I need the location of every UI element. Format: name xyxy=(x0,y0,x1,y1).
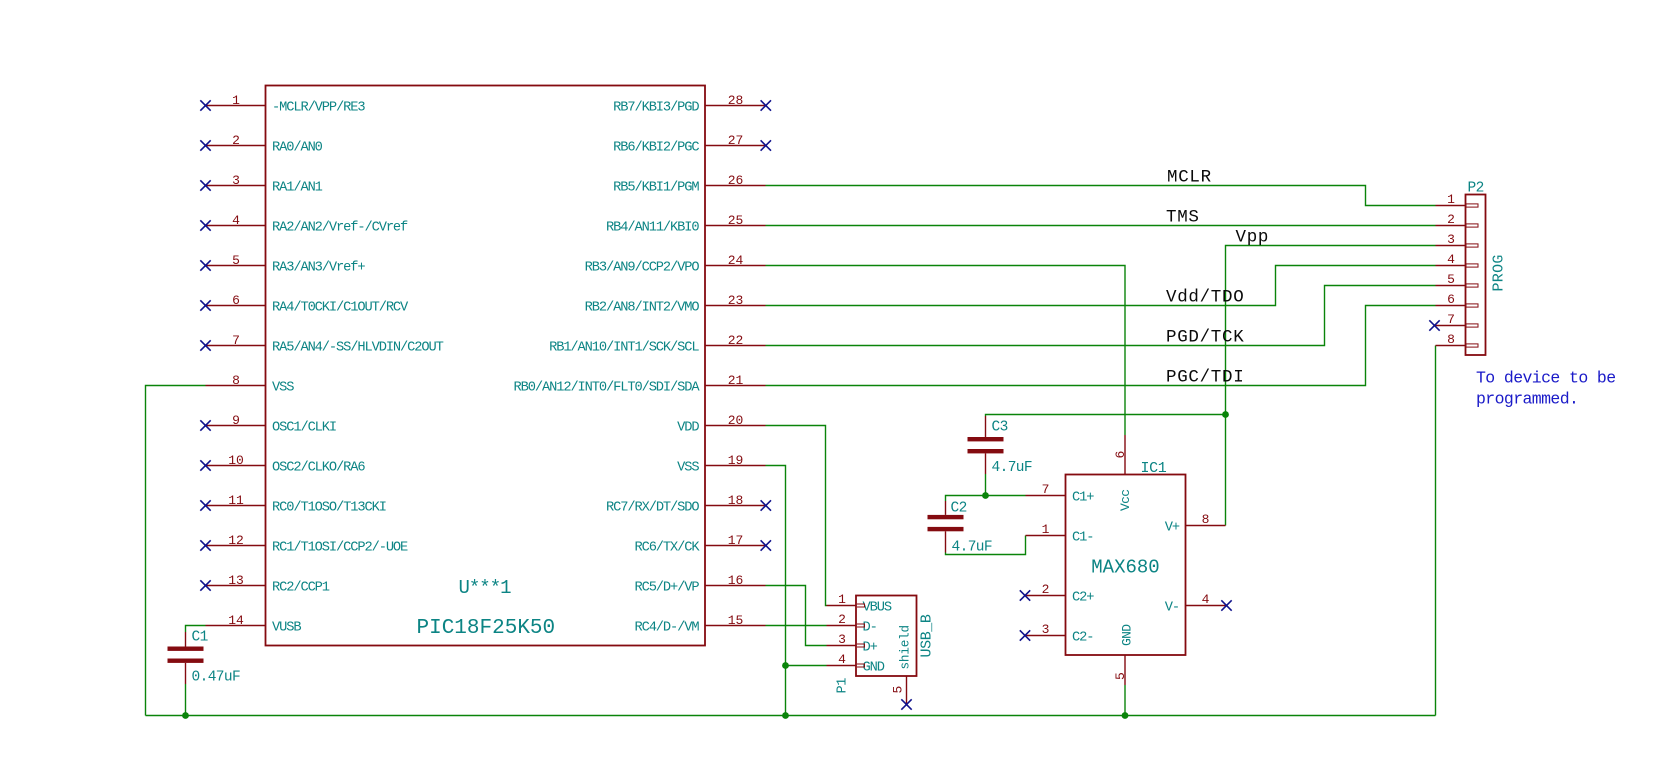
U1 pin 19 VSS xyxy=(677,453,765,476)
svg-text:6: 6 xyxy=(232,293,240,308)
svg-text:C1: C1 xyxy=(192,630,208,646)
capacitor C3 value 4.7uF xyxy=(992,460,1033,476)
svg-text:5: 5 xyxy=(891,686,906,694)
svg-text:7: 7 xyxy=(1447,312,1455,327)
P1 shield label xyxy=(899,625,913,669)
svg-text:RC6/TX/CK: RC6/TX/CK xyxy=(634,541,700,556)
svg-text:RA0/AN0: RA0/AN0 xyxy=(272,141,323,156)
svg-text:26: 26 xyxy=(728,173,744,188)
svg-text:3: 3 xyxy=(1447,232,1455,247)
junction Vpp / V+ / C3 node xyxy=(1222,411,1229,418)
svg-text:15: 15 xyxy=(728,613,744,628)
svg-text:5: 5 xyxy=(232,253,240,268)
U1 pin 6 RA4/T0CKI/C1OUT/RCV xyxy=(200,293,409,316)
svg-text:VSS: VSS xyxy=(677,461,699,476)
svg-text:OSC2/CLKO/RA6: OSC2/CLKO/RA6 xyxy=(272,461,365,476)
U1 pin 20 VDD xyxy=(677,413,765,436)
wire C3 bottom to C1+ node xyxy=(985,474,987,496)
svg-text:Vdd/TDO: Vdd/TDO xyxy=(1166,288,1244,308)
svg-text:1: 1 xyxy=(1447,192,1455,207)
wire MCLR net pin26 to P2 pin1 xyxy=(766,186,1436,206)
svg-text:PROG: PROG xyxy=(1491,254,1508,291)
svg-text:V+: V+ xyxy=(1165,521,1180,536)
U1 pin 15 RC4/D-/VM xyxy=(634,613,765,636)
U1 pin 4 RA2/AN2/Vref-/CVref xyxy=(200,213,408,236)
svg-text:U***1: U***1 xyxy=(459,577,512,599)
svg-text:4.7uF: 4.7uF xyxy=(952,540,993,556)
svg-text:PGD/TCK: PGD/TCK xyxy=(1166,328,1244,348)
wire VSS pin19 to ground rail xyxy=(766,466,786,716)
svg-text:-MCLR/VPP/RE3: -MCLR/VPP/RE3 xyxy=(272,101,365,116)
svg-text:8: 8 xyxy=(232,373,240,388)
svg-text:RB6/KBI2/PGC: RB6/KBI2/PGC xyxy=(613,141,699,156)
P2 pin 5 xyxy=(1436,272,1479,287)
svg-text:12: 12 xyxy=(228,533,244,548)
svg-text:RC4/D-/VM: RC4/D-/VM xyxy=(634,621,699,636)
U1 pin 23 RB2/AN8/INT2/VMO xyxy=(585,293,766,316)
junction VSS / ground rail xyxy=(782,712,789,719)
svg-text:8: 8 xyxy=(1202,512,1210,527)
svg-text:TMS: TMS xyxy=(1166,208,1200,228)
U1 pin 10 OSC2/CLKO/RA6 xyxy=(200,453,365,476)
capacitor C2 plates xyxy=(928,515,964,531)
IC1 pin 7 C1+ xyxy=(1026,482,1095,506)
svg-text:GND: GND xyxy=(1120,624,1135,646)
svg-text:0.47uF: 0.47uF xyxy=(192,670,241,686)
svg-text:9: 9 xyxy=(232,413,240,428)
wire Vdd/TDO net pin23 to P2 pin4 xyxy=(766,266,1436,306)
svg-text:16: 16 xyxy=(728,573,744,588)
svg-text:3: 3 xyxy=(1042,622,1050,637)
U1 pin 14 VUSB xyxy=(206,613,302,636)
svg-text:3: 3 xyxy=(232,173,240,188)
svg-text:RC2/CCP1: RC2/CCP1 xyxy=(272,581,330,596)
svg-text:4.7uF: 4.7uF xyxy=(992,460,1033,476)
P2 pin 1 xyxy=(1436,192,1479,207)
svg-text:C2+: C2+ xyxy=(1072,591,1094,606)
P2 value PROG xyxy=(1491,254,1508,291)
net label PGD/TCK xyxy=(1166,328,1244,348)
capacitor C2 top lead xyxy=(945,501,947,515)
svg-text:IC1: IC1 xyxy=(1141,460,1167,477)
svg-text:4: 4 xyxy=(1447,252,1455,267)
P1 pin 5 shield pin xyxy=(891,676,912,710)
wire Vpp net P2 pin3 to V+ node xyxy=(1226,246,1436,526)
svg-text:MCLR: MCLR xyxy=(1167,168,1212,188)
svg-text:OSC1/CLKI: OSC1/CLKI xyxy=(272,421,336,436)
capacitor C3 label xyxy=(992,420,1008,436)
svg-text:21: 21 xyxy=(728,373,744,388)
wire C1+ node to IC1 pin7 xyxy=(946,496,1026,502)
capacitor C1 bottom lead xyxy=(185,663,187,684)
svg-text:GND: GND xyxy=(863,661,885,676)
P2 pin 2 xyxy=(1436,212,1479,227)
note text line 2 xyxy=(1476,390,1578,409)
svg-text:28: 28 xyxy=(728,93,744,108)
wire pin24 to IC1 Vcc xyxy=(766,266,1126,436)
svg-text:C2: C2 xyxy=(951,501,967,517)
U1 pin 9 OSC1/CLKI xyxy=(200,413,336,436)
P2 pin 6 xyxy=(1436,292,1479,307)
svg-text:RA4/T0CKI/C1OUT/RCV: RA4/T0CKI/C1OUT/RCV xyxy=(272,301,409,316)
svg-text:D+: D+ xyxy=(863,641,878,656)
capacitor C3 bottom lead xyxy=(985,453,987,474)
U1 pin 17 RC6/TX/CK xyxy=(634,533,771,556)
U1 pin 28 RB7/KBI3/PGD xyxy=(613,93,771,116)
connector P1 USB_B body xyxy=(856,596,917,677)
svg-text:VBUS: VBUS xyxy=(863,601,892,616)
P2 pin 8 xyxy=(1436,332,1479,347)
svg-text:6: 6 xyxy=(1113,451,1128,459)
svg-text:22: 22 xyxy=(728,333,744,348)
svg-text:23: 23 xyxy=(728,293,744,308)
svg-text:1: 1 xyxy=(838,592,846,607)
svg-text:C3: C3 xyxy=(992,420,1008,436)
IC1 reference label xyxy=(1141,460,1167,477)
wire ground rail xyxy=(146,715,1436,717)
IC1 value MAX680 xyxy=(1091,557,1159,579)
svg-text:6: 6 xyxy=(1447,292,1455,307)
net label TMS xyxy=(1166,208,1200,228)
wire IC1 GND pin5 to rail xyxy=(1124,685,1126,716)
svg-text:1: 1 xyxy=(1042,522,1050,537)
wire PGD/TCK net pin22 to P2 pin5 xyxy=(766,286,1436,346)
wire pin15 to USB D- xyxy=(766,625,827,627)
svg-text:4: 4 xyxy=(838,652,846,667)
svg-text:programmed.: programmed. xyxy=(1476,390,1578,409)
IC1 pin 5 GND xyxy=(1113,624,1135,685)
P1 reference label xyxy=(836,678,851,694)
svg-text:RB5/KBI1/PGM: RB5/KBI1/PGM xyxy=(613,181,699,196)
wire C1 to ground rail xyxy=(185,684,187,716)
connector P2 body xyxy=(1466,195,1486,356)
svg-text:To device to be: To device to be xyxy=(1476,369,1616,388)
U1 pin 5 RA3/AN3/Vref+ xyxy=(200,253,365,276)
svg-text:RB1/AN10/INT1/SCK/SCL: RB1/AN10/INT1/SCK/SCL xyxy=(549,341,699,356)
U1 pin 16 RC5/D+/VP xyxy=(634,573,765,596)
U1 pin 26 RB5/KBI1/PGM xyxy=(613,173,765,196)
svg-text:PGC/TDI: PGC/TDI xyxy=(1166,368,1244,388)
svg-text:USB_B: USB_B xyxy=(919,614,936,657)
U1 pin 7 RA5/AN4/-SS/HLVDIN/C2OUT xyxy=(200,333,443,356)
net label MCLR xyxy=(1167,168,1212,188)
capacitor C1 value 0.47uF xyxy=(192,670,241,686)
P1 pin 1 VBUS xyxy=(827,592,892,616)
svg-text:RC5/D+/VP: RC5/D+/VP xyxy=(634,581,699,596)
IC1 pin 4 V- xyxy=(1165,592,1232,616)
svg-text:VUSB: VUSB xyxy=(272,621,301,636)
junction C1 / ground rail xyxy=(182,712,189,719)
svg-text:D-: D- xyxy=(863,621,877,636)
U1 pin 13 RC2/CCP1 xyxy=(200,573,329,596)
IC U1 PIC18F25K50 body xyxy=(266,86,706,646)
P1 pin 4 GND xyxy=(827,652,885,676)
svg-text:25: 25 xyxy=(728,213,744,228)
IC U1 value PIC18F25K50 xyxy=(417,617,556,640)
svg-text:19: 19 xyxy=(728,453,744,468)
U1 pin 22 RB1/AN10/INT1/SCK/SCL xyxy=(549,333,765,356)
svg-text:RB3/AN9/CCP2/VPO: RB3/AN9/CCP2/VPO xyxy=(585,261,700,276)
svg-text:V-: V- xyxy=(1165,601,1179,616)
svg-text:10: 10 xyxy=(228,453,244,468)
net label Vpp xyxy=(1236,228,1270,248)
svg-text:RA2/AN2/Vref-/CVref: RA2/AN2/Vref-/CVref xyxy=(272,221,408,236)
junction IC1 GND / ground rail xyxy=(1122,712,1129,719)
junction USB GND branch xyxy=(782,662,789,669)
svg-text:20: 20 xyxy=(728,413,744,428)
P1 pin 3 D+ xyxy=(827,632,878,656)
svg-text:18: 18 xyxy=(728,493,744,508)
capacitor C1 plates xyxy=(168,647,204,663)
U1 pin 18 RC7/RX/DT/SDO xyxy=(606,493,771,516)
wire VDD pin20 to USB VBUS xyxy=(766,426,827,606)
P1 value USB_B xyxy=(919,614,936,657)
capacitor C2 label xyxy=(951,501,967,517)
U1 pin 3 RA1/AN1 xyxy=(200,173,322,196)
capacitor C3 plates xyxy=(968,437,1004,453)
svg-text:P1: P1 xyxy=(836,678,851,694)
svg-text:C1-: C1- xyxy=(1072,531,1093,546)
svg-text:RC7/RX/DT/SDO: RC7/RX/DT/SDO xyxy=(606,501,699,516)
svg-text:11: 11 xyxy=(228,493,244,508)
IC U1 reference U***1 xyxy=(459,577,512,599)
svg-text:P2: P2 xyxy=(1468,181,1484,197)
svg-text:RA3/AN3/Vref+: RA3/AN3/Vref+ xyxy=(272,261,365,276)
wire P2 pin8 to ground rail xyxy=(1435,346,1437,716)
svg-text:27: 27 xyxy=(728,133,744,148)
note text line 1 xyxy=(1476,369,1616,388)
svg-text:RB7/KBI3/PGD: RB7/KBI3/PGD xyxy=(613,101,699,116)
IC IC1 MAX680 body xyxy=(1066,475,1186,656)
P2 pin 4 xyxy=(1436,252,1479,267)
svg-text:Vcc: Vcc xyxy=(1118,490,1133,511)
svg-text:2: 2 xyxy=(1042,582,1050,597)
svg-text:VDD: VDD xyxy=(677,421,699,436)
svg-text:RC0/T1OSO/T13CKI: RC0/T1OSO/T13CKI xyxy=(272,501,386,516)
svg-text:RB2/AN8/INT2/VMO: RB2/AN8/INT2/VMO xyxy=(585,301,700,316)
U1 pin 8 VSS xyxy=(206,373,295,396)
svg-text:RB0/AN12/INT0/FLT0/SDI/SDA: RB0/AN12/INT0/FLT0/SDI/SDA xyxy=(514,381,701,396)
P1 pin 2 D- xyxy=(827,612,877,636)
P2 reference label xyxy=(1468,181,1484,197)
svg-text:shield: shield xyxy=(899,625,913,669)
capacitor C1 top lead xyxy=(185,632,187,647)
net label Vdd/TDO xyxy=(1166,288,1244,308)
U1 pin 24 RB3/AN9/CCP2/VPO xyxy=(585,253,766,276)
U1 pin 11 RC0/T1OSO/T13CKI xyxy=(200,493,386,516)
svg-text:1: 1 xyxy=(232,93,240,108)
IC1 pin 2 C2+ xyxy=(1020,582,1094,606)
IC1 pin 3 C2- xyxy=(1020,622,1094,646)
svg-text:C1+: C1+ xyxy=(1072,491,1094,506)
svg-text:RC1/T1OSI/CCP2/-UOE: RC1/T1OSI/CCP2/-UOE xyxy=(272,541,408,556)
wire USB GND to rail branch xyxy=(786,665,827,667)
svg-text:RA5/AN4/-SS/HLVDIN/C2OUT: RA5/AN4/-SS/HLVDIN/C2OUT xyxy=(272,341,444,356)
capacitor C2 value 4.7uF xyxy=(952,540,993,556)
svg-text:3: 3 xyxy=(838,632,846,647)
svg-text:7: 7 xyxy=(1042,482,1050,497)
svg-text:RA1/AN1: RA1/AN1 xyxy=(272,181,323,196)
U1 pin 21 RB0/AN12/INT0/FLT0/SDI/SDA xyxy=(514,373,766,396)
P2 pin 3 xyxy=(1436,232,1479,247)
junction C3 / C1+ node xyxy=(982,492,989,499)
svg-text:17: 17 xyxy=(728,533,744,548)
U1 pin 2 RA0/AN0 xyxy=(200,133,322,156)
svg-text:4: 4 xyxy=(1202,592,1210,607)
wire pin16 to USB D+ xyxy=(766,586,827,646)
svg-text:8: 8 xyxy=(1447,332,1455,347)
wire VUSB pin14 to C1 xyxy=(186,626,206,633)
capacitor C3 top lead xyxy=(985,416,987,437)
capacitor C2 bottom lead xyxy=(945,531,947,552)
wire C2 bottom to IC1 pin1 xyxy=(946,536,1026,555)
svg-text:C2-: C2- xyxy=(1072,631,1093,646)
svg-text:13: 13 xyxy=(228,573,244,588)
svg-text:VSS: VSS xyxy=(272,381,294,396)
P2 pin 7 xyxy=(1429,312,1478,331)
U1 pin 25 RB4/AN11/KBI0 xyxy=(606,213,765,236)
svg-text:RB4/AN11/KBI0: RB4/AN11/KBI0 xyxy=(606,221,699,236)
IC1 pin 8 V+ xyxy=(1165,512,1226,536)
svg-text:PIC18F25K50: PIC18F25K50 xyxy=(417,617,556,640)
svg-text:4: 4 xyxy=(232,213,240,228)
svg-text:7: 7 xyxy=(232,333,240,348)
svg-text:5: 5 xyxy=(1447,272,1455,287)
svg-text:2: 2 xyxy=(1447,212,1455,227)
IC1 pin 1 C1- xyxy=(1026,522,1094,546)
capacitor C1 label xyxy=(192,630,208,646)
svg-text:2: 2 xyxy=(838,612,846,627)
svg-text:Vpp: Vpp xyxy=(1236,228,1270,248)
svg-text:14: 14 xyxy=(228,613,244,628)
wire VSS pin8 to ground rail xyxy=(146,386,206,716)
wire PGC/TDI net pin21 to P2 pin6 xyxy=(766,306,1436,386)
U1 pin 1 -MCLR/VPP/RE3 xyxy=(200,93,365,116)
wire C3 top to V+ node xyxy=(986,415,1226,417)
IC1 pin 6 Vcc xyxy=(1113,435,1133,511)
U1 pin 12 RC1/T1OSI/CCP2/-UOE xyxy=(200,533,408,556)
net label PGC/TDI xyxy=(1166,368,1244,388)
U1 pin 27 RB6/KBI2/PGC xyxy=(613,133,771,156)
svg-text:24: 24 xyxy=(728,253,744,268)
svg-text:MAX680: MAX680 xyxy=(1091,557,1159,579)
svg-text:2: 2 xyxy=(232,133,240,148)
svg-text:5: 5 xyxy=(1113,672,1128,680)
wire TMS net pin25 to P2 pin2 xyxy=(766,225,1436,227)
